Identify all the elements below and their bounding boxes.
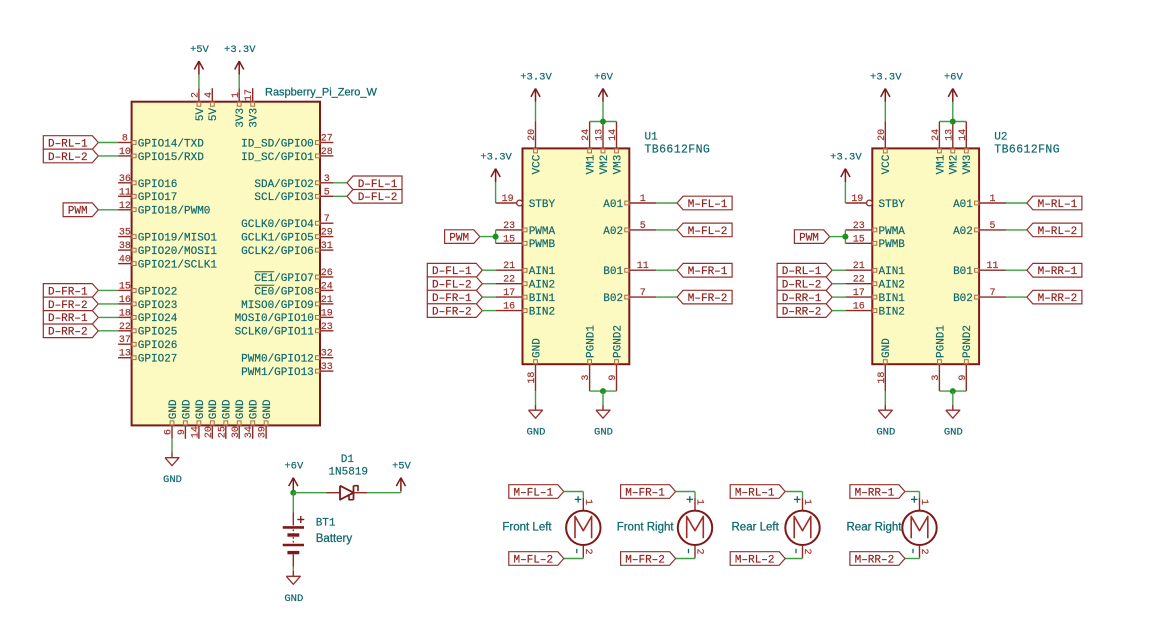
svg-text:A01: A01: [603, 199, 623, 211]
svg-text:28: 28: [321, 147, 333, 158]
svg-text:+3.3V: +3.3V: [870, 71, 902, 83]
svg-text:M–FL–1: M–FL–1: [688, 199, 728, 211]
svg-text:GND: GND: [876, 427, 895, 439]
svg-text:VM1: VM1: [935, 154, 947, 174]
svg-text:D–FL–2: D–FL–2: [358, 192, 398, 204]
svg-text:GPIO24: GPIO24: [138, 313, 178, 325]
svg-text:39: 39: [258, 426, 269, 438]
svg-text:GND: GND: [168, 399, 180, 419]
svg-text:BIN1: BIN1: [879, 293, 906, 305]
svg-text:20: 20: [204, 426, 215, 438]
svg-text:9: 9: [608, 375, 619, 381]
svg-text:3: 3: [324, 174, 330, 185]
svg-text:PWMB: PWMB: [879, 239, 906, 251]
svg-text:10: 10: [119, 147, 131, 158]
svg-text:18: 18: [527, 372, 538, 384]
svg-text:18: 18: [119, 308, 131, 319]
svg-text:23: 23: [853, 221, 865, 232]
svg-text:VM2: VM2: [949, 155, 961, 175]
svg-text:12: 12: [119, 201, 131, 212]
svg-text:VM2: VM2: [599, 155, 611, 175]
svg-text:GND: GND: [208, 399, 220, 419]
svg-text:STBY: STBY: [879, 199, 906, 211]
svg-text:B02: B02: [953, 293, 973, 305]
svg-text:AIN1: AIN1: [879, 266, 906, 278]
svg-text:PGND1: PGND1: [586, 325, 598, 358]
svg-text:M–FL–2: M–FL–2: [513, 554, 553, 566]
svg-text:31: 31: [321, 241, 333, 252]
svg-text:16: 16: [119, 295, 131, 306]
svg-text:6: 6: [164, 429, 175, 435]
svg-text:32: 32: [321, 349, 333, 360]
svg-text:GND: GND: [594, 427, 613, 439]
svg-text:GND: GND: [195, 399, 207, 419]
svg-text:17: 17: [244, 89, 255, 101]
svg-text:14: 14: [958, 129, 969, 141]
svg-text:CE0/GPIO8: CE0/GPIO8: [254, 286, 313, 298]
svg-text:TB6612FNG: TB6612FNG: [994, 144, 1060, 157]
svg-text:GND: GND: [163, 474, 182, 486]
svg-text:GPIO19/MISO1: GPIO19/MISO1: [138, 233, 218, 245]
svg-text:24: 24: [321, 281, 333, 292]
svg-text:PWMB: PWMB: [529, 239, 556, 251]
svg-text:25: 25: [217, 426, 228, 438]
svg-text:GCLK2/GPIO6: GCLK2/GPIO6: [241, 246, 314, 258]
svg-text:STBY: STBY: [529, 199, 556, 211]
svg-text:D–FR–2: D–FR–2: [432, 307, 472, 319]
svg-text:13: 13: [595, 129, 606, 141]
svg-text:D–RL–2: D–RL–2: [48, 152, 88, 164]
svg-text:9: 9: [177, 429, 188, 435]
svg-text:24: 24: [931, 129, 942, 141]
svg-text:AIN2: AIN2: [879, 280, 905, 292]
svg-text:SDA/GPIO2: SDA/GPIO2: [254, 179, 313, 191]
svg-text:GND: GND: [284, 593, 303, 605]
svg-text:D1: D1: [341, 454, 355, 466]
svg-text:5: 5: [989, 221, 995, 232]
svg-text:PGND2: PGND2: [962, 325, 974, 358]
svg-text:36: 36: [119, 174, 131, 185]
svg-text:17: 17: [503, 288, 515, 299]
svg-text:19: 19: [321, 308, 333, 319]
svg-text:5: 5: [324, 187, 330, 198]
svg-text:PWMA: PWMA: [529, 226, 556, 238]
svg-text:3: 3: [931, 375, 942, 381]
svg-text:Battery: Battery: [316, 533, 353, 545]
svg-text:+5V: +5V: [190, 44, 210, 56]
svg-text:1: 1: [989, 194, 995, 205]
svg-text:ID_SD/GPIO0: ID_SD/GPIO0: [241, 138, 314, 150]
svg-text:22: 22: [119, 322, 131, 333]
svg-text:7: 7: [640, 288, 646, 299]
svg-text:23: 23: [503, 221, 515, 232]
svg-text:B02: B02: [603, 293, 623, 305]
svg-text:GPIO20/MOSI1: GPIO20/MOSI1: [138, 246, 218, 258]
svg-text:M–RR–1: M–RR–1: [855, 487, 895, 499]
svg-text:22: 22: [853, 275, 865, 286]
svg-text:GPIO27: GPIO27: [138, 354, 178, 366]
svg-text:GCLK1/GPIO5: GCLK1/GPIO5: [241, 233, 314, 245]
svg-text:M–RL–1: M–RL–1: [735, 487, 775, 499]
svg-text:M–RL–2: M–RL–2: [735, 554, 775, 566]
svg-text:MISO0/GPIO9: MISO0/GPIO9: [241, 300, 314, 312]
svg-text:21: 21: [853, 261, 865, 272]
svg-text:Rear Left: Rear Left: [732, 522, 780, 534]
svg-text:17: 17: [853, 288, 865, 299]
svg-text:+3.3V: +3.3V: [520, 71, 552, 83]
svg-text:BIN1: BIN1: [529, 293, 556, 305]
svg-text:GPIO26: GPIO26: [138, 340, 178, 352]
svg-text:A02: A02: [953, 226, 973, 238]
svg-text:GPIO21/SCLK1: GPIO21/SCLK1: [138, 259, 218, 271]
svg-text:VCC: VCC: [881, 154, 893, 174]
svg-text:1: 1: [582, 499, 593, 505]
svg-text:24: 24: [581, 129, 592, 141]
svg-text:+5V: +5V: [392, 461, 412, 473]
svg-text:PWM0/GPIO12: PWM0/GPIO12: [241, 354, 314, 366]
svg-text:33: 33: [321, 362, 333, 373]
svg-text:16: 16: [853, 302, 865, 313]
svg-text:M–RR–2: M–RR–2: [1038, 293, 1078, 305]
svg-text:GND: GND: [944, 427, 963, 439]
svg-text:CE1/GPIO7: CE1/GPIO7: [254, 273, 313, 285]
svg-text:+6V: +6V: [594, 71, 614, 83]
svg-text:TB6612FNG: TB6612FNG: [645, 144, 711, 157]
svg-text:22: 22: [503, 275, 515, 286]
svg-text:13: 13: [944, 129, 955, 141]
svg-text:1N5819: 1N5819: [328, 467, 368, 479]
svg-text:GPIO18/PWM0: GPIO18/PWM0: [138, 206, 211, 218]
svg-text:19: 19: [851, 194, 863, 205]
svg-text:GPIO25: GPIO25: [138, 327, 178, 339]
svg-text:M–FR–2: M–FR–2: [625, 554, 665, 566]
svg-text:GPIO16: GPIO16: [138, 179, 178, 191]
svg-text:VM3: VM3: [612, 155, 624, 175]
svg-text:20: 20: [877, 129, 888, 141]
svg-text:1: 1: [801, 499, 812, 505]
svg-text:SCL/GPIO3: SCL/GPIO3: [254, 192, 313, 204]
svg-text:VM3: VM3: [962, 155, 974, 175]
svg-text:21: 21: [321, 295, 333, 306]
svg-text:35: 35: [119, 228, 131, 239]
svg-text:1: 1: [231, 92, 242, 98]
svg-text:PWM: PWM: [799, 233, 819, 245]
svg-text:Rear Right: Rear Right: [847, 522, 903, 534]
svg-text:PWMA: PWMA: [879, 226, 906, 238]
svg-text:27: 27: [321, 134, 333, 145]
svg-text:18: 18: [877, 372, 888, 384]
svg-text:GND: GND: [222, 399, 234, 419]
svg-text:4: 4: [204, 92, 215, 98]
svg-text:BT1: BT1: [316, 518, 336, 530]
svg-text:PWM: PWM: [449, 233, 469, 245]
svg-text:PWM1/GPIO13: PWM1/GPIO13: [241, 367, 314, 379]
svg-text:AIN2: AIN2: [529, 280, 555, 292]
svg-text:1: 1: [918, 499, 929, 505]
svg-text:BIN2: BIN2: [529, 307, 555, 319]
svg-text:GND: GND: [527, 427, 546, 439]
svg-text:15: 15: [119, 281, 131, 292]
svg-text:11: 11: [637, 261, 649, 272]
svg-text:GND: GND: [531, 338, 543, 358]
svg-text:3: 3: [581, 375, 592, 381]
svg-text:M–RR–2: M–RR–2: [855, 554, 895, 566]
svg-text:2: 2: [190, 92, 201, 98]
svg-text:M–RL–2: M–RL–2: [1038, 226, 1078, 238]
svg-text:15: 15: [853, 234, 865, 245]
svg-text:GPIO14/TXD: GPIO14/TXD: [138, 138, 204, 150]
svg-text:GND: GND: [181, 399, 193, 419]
svg-text:M–FR–1: M–FR–1: [625, 487, 665, 499]
svg-text:26: 26: [321, 268, 333, 279]
svg-text:5V: 5V: [208, 108, 220, 122]
svg-text:19: 19: [502, 194, 514, 205]
svg-text:GND: GND: [881, 338, 893, 358]
svg-text:+3.3V: +3.3V: [830, 151, 862, 163]
svg-text:BIN2: BIN2: [879, 307, 905, 319]
svg-text:3V3: 3V3: [249, 108, 261, 128]
svg-text:VM1: VM1: [586, 154, 598, 174]
svg-text:Front Left: Front Left: [502, 522, 552, 534]
svg-text:MOSI0/GPIO10: MOSI0/GPIO10: [235, 313, 314, 325]
svg-text:PGND2: PGND2: [612, 325, 624, 358]
svg-text:D–RR–2: D–RR–2: [782, 307, 822, 319]
svg-text:+3.3V: +3.3V: [224, 44, 256, 56]
svg-text:U2: U2: [994, 132, 1007, 144]
svg-text:34: 34: [244, 426, 255, 438]
svg-text:B01: B01: [953, 266, 973, 278]
svg-text:7: 7: [989, 288, 995, 299]
svg-text:14: 14: [190, 426, 201, 438]
svg-text:30: 30: [231, 426, 242, 438]
svg-text:11: 11: [119, 187, 131, 198]
svg-text:5: 5: [640, 221, 646, 232]
svg-text:M–RR–1: M–RR–1: [1038, 266, 1078, 278]
svg-text:23: 23: [321, 322, 333, 333]
svg-text:9: 9: [958, 375, 969, 381]
svg-text:B01: B01: [603, 266, 623, 278]
svg-text:ID_SC/GPIO1: ID_SC/GPIO1: [241, 152, 314, 164]
svg-text:PWM: PWM: [68, 206, 88, 218]
svg-text:GPIO22: GPIO22: [138, 286, 178, 298]
svg-text:11: 11: [986, 261, 998, 272]
svg-text:5V: 5V: [195, 108, 207, 122]
svg-text:Raspberry_Pi_Zero_W: Raspberry_Pi_Zero_W: [265, 87, 377, 99]
svg-text:M–FR–2: M–FR–2: [688, 293, 728, 305]
svg-text:3V3: 3V3: [235, 108, 247, 128]
svg-text:GPIO15/RXD: GPIO15/RXD: [138, 152, 204, 164]
svg-text:37: 37: [119, 335, 131, 346]
svg-text:GPIO17: GPIO17: [138, 192, 178, 204]
svg-text:SCLK0/GPIO11: SCLK0/GPIO11: [235, 327, 315, 339]
svg-text:A01: A01: [953, 199, 973, 211]
svg-text:8: 8: [122, 134, 128, 145]
svg-text:1: 1: [694, 499, 705, 505]
svg-text:15: 15: [503, 234, 515, 245]
svg-text:VCC: VCC: [531, 154, 543, 174]
svg-text:13: 13: [119, 349, 131, 360]
svg-text:20: 20: [527, 129, 538, 141]
svg-text:M–FL–1: M–FL–1: [513, 487, 553, 499]
svg-text:29: 29: [321, 228, 333, 239]
svg-text:GND: GND: [249, 399, 261, 419]
svg-text:+6V: +6V: [944, 71, 964, 83]
svg-text:M–FR–1: M–FR–1: [688, 266, 728, 278]
svg-text:D–RR–2: D–RR–2: [48, 327, 88, 339]
svg-text:GND: GND: [235, 399, 247, 419]
svg-text:38: 38: [119, 241, 131, 252]
svg-text:+3.3V: +3.3V: [480, 151, 512, 163]
svg-text:M–RL–1: M–RL–1: [1038, 199, 1078, 211]
svg-text:U1: U1: [645, 132, 659, 144]
svg-text:GCLK0/GPIO4: GCLK0/GPIO4: [241, 219, 314, 231]
svg-text:+6V: +6V: [284, 461, 304, 473]
svg-text:14: 14: [608, 129, 619, 141]
svg-text:GND: GND: [262, 399, 274, 419]
svg-text:PGND1: PGND1: [935, 325, 947, 358]
svg-text:A02: A02: [603, 226, 623, 238]
svg-text:40: 40: [119, 255, 131, 266]
svg-text:1: 1: [640, 194, 646, 205]
svg-text:GPIO23: GPIO23: [138, 300, 178, 312]
svg-text:21: 21: [503, 261, 515, 272]
svg-text:Front Right: Front Right: [617, 522, 675, 534]
svg-text:M–FL–2: M–FL–2: [688, 226, 728, 238]
svg-text:7: 7: [324, 214, 330, 225]
svg-text:AIN1: AIN1: [529, 266, 556, 278]
svg-text:16: 16: [503, 302, 515, 313]
